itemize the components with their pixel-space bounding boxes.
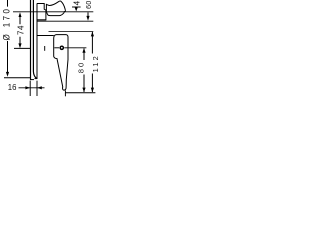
svg-text:112: 112 (91, 54, 100, 72)
dimension 60: arrow (down) (86, 16, 89, 21)
svg-text:60: 60 (86, 0, 93, 9)
escutcheon plate front edge with bottom curve (33, 0, 36, 78)
dimension Ø170: lower line segment (7, 41, 9, 72)
dimension 16: right extension line (36, 81, 38, 96)
dimension 16: dimension line (19, 87, 45, 89)
node: centerline of valve (left view) (14, 47, 30, 49)
wire: reference line A (lever-tip level, y=11.7) (13, 11, 93, 13)
dimension 112: line (91, 32, 93, 54)
sleeve front edge (36, 3, 38, 78)
handle tip extension line (64, 90, 66, 96)
handle box (lever up, side view) (37, 4, 46, 20)
dimension 16: left extension line (29, 81, 31, 96)
dimension 74: upper line segment (19, 17, 21, 25)
bottom reference line (66, 92, 96, 94)
handle detail outline (lever pointing down) (54, 35, 68, 91)
svg-text:4: 4 (72, 0, 81, 5)
dimension 4: short reference line (72, 6, 81, 8)
dimension 74: lower line segment (19, 37, 21, 44)
set screw hole (60, 46, 63, 49)
dimension 112: bottom arrow (down) (91, 88, 94, 93)
svg-text:80: 80 (77, 61, 86, 73)
dimension 4: arrow (down) (75, 8, 78, 12)
svg-text:16: 16 (8, 83, 17, 92)
handle box bottom second line (37, 19, 46, 21)
escutcheon plate back edge (30, 0, 32, 80)
wire: reference line B (sleeve bottom extension, y=21.2) (37, 20, 93, 22)
dimension 74: top arrow (up) (19, 12, 22, 17)
dimension 112: top arrow (up) (91, 32, 94, 37)
dimension Ø170: top line segment (7, 0, 9, 7)
centerline through hole: right dash (64, 47, 86, 49)
wire: reference line top of handle detail (y=31.3) (49, 30, 94, 32)
escutcheon plate bottom edge (30, 79, 34, 81)
dimension 80: bottom arrow (down) (82, 88, 85, 93)
dimension Ø170: bottom arrow (down) (6, 72, 9, 77)
svg-text:Ø 170: Ø 170 (1, 7, 12, 41)
wire: projection line from sleeve to handle detail (y=35.4) (37, 35, 54, 37)
dimension 80: top arrow (up) (82, 48, 85, 53)
dimension Ø170: bottom reference line (4, 77, 30, 79)
lever grip bar below line A (47, 12, 65, 16)
dimension 80: line (83, 49, 85, 61)
svg-text:74: 74 (16, 25, 25, 35)
dimension 16: right arrow (points left) (37, 86, 42, 89)
dimension 60: arrow tail (87, 12, 89, 16)
dimension 74: bottom arrow (down) (18, 43, 21, 48)
lever blade horizontal (whale outline, top) (46, 1, 65, 12)
node: center tick vertical at valve axis (44, 46, 46, 51)
dimension 16: left arrow (points right) (25, 86, 30, 89)
sleeve bottom tick (35, 78, 38, 80)
centerline through hole: left dash (54, 47, 59, 49)
